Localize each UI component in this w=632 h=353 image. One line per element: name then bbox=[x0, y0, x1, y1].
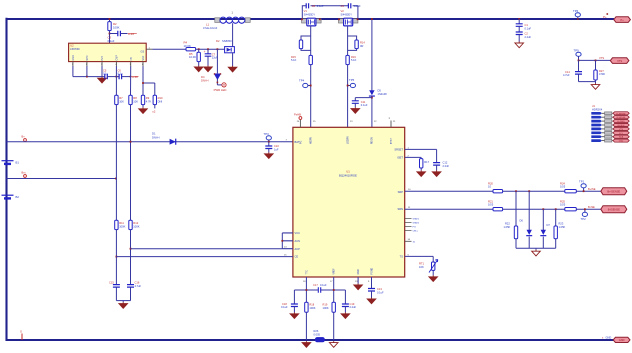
svg-text:VCC: VCC bbox=[295, 231, 301, 235]
capacitor C12 bbox=[433, 163, 440, 166]
wire C3 to net tie bbox=[120, 33, 127, 35]
test point TP9 VTS bbox=[576, 52, 581, 56]
svg-text:P+: P+ bbox=[603, 15, 607, 19]
inductor L1 bbox=[215, 18, 220, 23]
diode D5 to REGN bbox=[369, 90, 374, 95]
resistor R18 bbox=[305, 302, 308, 312]
node junction Q1 right bbox=[319, 18, 321, 20]
node junction input caps bbox=[518, 18, 520, 20]
net label B-I row 4 bbox=[591, 124, 602, 127]
svg-text:C12: C12 bbox=[443, 160, 448, 164]
capacitor C15 bbox=[113, 285, 120, 288]
resistor R20 series bbox=[493, 190, 503, 193]
diode D1 on BAT+ wire bbox=[170, 139, 176, 145]
connector J1 pin 3 bbox=[602, 120, 614, 122]
port B+ISENSE bbox=[601, 188, 627, 195]
ground below R17 bbox=[420, 168, 422, 170]
resistor R15 gate series bbox=[309, 55, 312, 64]
svg-text:10/5: 10/5 bbox=[560, 203, 566, 207]
svg-text:R14: R14 bbox=[360, 41, 365, 45]
U1 pin names right side bbox=[394, 148, 403, 259]
svg-text:R18: R18 bbox=[309, 302, 314, 306]
capacitor C13 bbox=[368, 289, 375, 292]
svg-text:VTS: VTS bbox=[619, 129, 624, 131]
wire GND bus bottom bbox=[7, 339, 614, 341]
wire bottom bracket bbox=[294, 289, 318, 291]
node X2 tie below R10 bbox=[154, 105, 156, 109]
wire R23 to rail bbox=[555, 239, 557, 248]
wire SRP net bbox=[405, 190, 493, 192]
wire Q1 gate chain bbox=[310, 26, 312, 56]
svg-text:C15: C15 bbox=[109, 281, 114, 285]
wire VTS net bbox=[579, 59, 611, 61]
node junction Q2 left bbox=[338, 18, 340, 20]
svg-text:SI4435DY: SI4435DY bbox=[304, 14, 316, 17]
power port GND tick bottom left bbox=[21, 334, 23, 341]
wire GND pin stub bbox=[357, 277, 359, 284]
resistor R27 bbox=[594, 70, 597, 80]
svg-text:47uH-10x10: 47uH-10x10 bbox=[203, 26, 218, 30]
diode D6 clamp bbox=[527, 230, 532, 235]
capacitor C11 bbox=[352, 101, 359, 104]
svg-text:10K: 10K bbox=[419, 265, 424, 269]
svg-text:U2: U2 bbox=[70, 44, 74, 48]
resistor R2 pullup to VIN bbox=[108, 22, 111, 31]
wire C16 to gnd bracket bbox=[130, 287, 132, 301]
svg-text:SI4435DY: SI4435DY bbox=[341, 14, 353, 17]
svg-text:C19: C19 bbox=[350, 302, 355, 306]
capacitor C9 bypass bbox=[348, 3, 350, 8]
svg-text:2.2nF: 2.2nF bbox=[443, 164, 450, 168]
capacitor C7 bbox=[207, 49, 209, 53]
net label GND row 8 bbox=[591, 139, 602, 142]
svg-text:V2: V2 bbox=[341, 9, 345, 13]
svg-text:L5973D: L5973D bbox=[70, 47, 79, 51]
svg-text:C13: C13 bbox=[377, 287, 382, 291]
svg-text:D2: D2 bbox=[216, 39, 220, 43]
svg-text:TP4: TP4 bbox=[299, 79, 305, 83]
node junction R2 bottom bbox=[109, 33, 111, 35]
capacitor C16 bbox=[127, 285, 134, 288]
svg-text:1.05K: 1.05K bbox=[559, 225, 566, 229]
svg-text:0.1uF: 0.1uF bbox=[320, 283, 327, 287]
svg-text:Bm: Bm bbox=[22, 171, 26, 175]
svg-text:B-SENSE: B-SENSE bbox=[617, 117, 626, 119]
resistor R7 bbox=[115, 95, 118, 104]
svg-text:B2: B2 bbox=[16, 195, 20, 199]
svg-text:TP3: TP3 bbox=[264, 132, 270, 136]
node junction REGN bbox=[371, 97, 373, 99]
svg-text:0.1u: 0.1u bbox=[103, 72, 109, 76]
svg-text:TP6: TP6 bbox=[573, 9, 579, 13]
capacitor C1 input bbox=[516, 24, 523, 27]
node junction Q2 right bbox=[357, 18, 359, 20]
svg-text:GND: GND bbox=[619, 338, 625, 342]
node junction TP3 bbox=[268, 141, 270, 143]
ground below C2 bbox=[518, 35, 520, 42]
capacitor C17 series bracket bbox=[318, 287, 320, 292]
ground below C19 bbox=[344, 307, 346, 313]
resistor R17 bbox=[420, 159, 423, 168]
svg-text:R25: R25 bbox=[560, 199, 565, 203]
connector J1 pin 8 bbox=[602, 140, 614, 142]
capacitor C3 bbox=[118, 31, 121, 37]
svg-text:PxHB: PxHB bbox=[294, 113, 301, 117]
wire stubs status pins bbox=[405, 219, 412, 242]
svg-text:GS: GS bbox=[141, 51, 145, 54]
svg-text:100K: 100K bbox=[323, 306, 329, 310]
connector J1 pin 5 bbox=[602, 128, 614, 130]
svg-text:GND: GND bbox=[72, 55, 75, 61]
svg-text:1uF: 1uF bbox=[274, 148, 279, 152]
capacitor C14 bbox=[575, 72, 582, 75]
net label B-S row 2 bbox=[591, 116, 602, 119]
ground below RT1 bbox=[432, 270, 434, 275]
svg-text:FB: FB bbox=[130, 57, 133, 60]
wire Q2 gate branch elbow bbox=[348, 36, 357, 40]
node junction Q1 left bbox=[301, 18, 303, 20]
svg-text:100K: 100K bbox=[119, 224, 125, 228]
svg-text:0.1uF: 0.1uF bbox=[108, 39, 115, 43]
svg-text:BAT: BAT bbox=[295, 140, 300, 144]
ground below C10 bbox=[268, 149, 270, 153]
resistor R22 bbox=[514, 226, 517, 239]
svg-text:INH: INH bbox=[101, 56, 104, 60]
svg-text:2.2uF: 2.2uF bbox=[350, 305, 357, 309]
wire ISET pin to R17 bbox=[405, 156, 422, 158]
node junction BAT+ tap bbox=[130, 141, 132, 143]
svg-text:B-ISEN: B-ISEN bbox=[618, 125, 625, 127]
wire bracket left down bbox=[293, 290, 295, 304]
svg-text:DNI-H: DNI-H bbox=[152, 135, 160, 139]
svg-text:D4: D4 bbox=[201, 75, 205, 79]
transistor Q1 PFET bbox=[302, 19, 307, 23]
svg-text:P+: P+ bbox=[620, 18, 624, 22]
svg-text:TP2: TP2 bbox=[581, 217, 587, 221]
capacitor C8 bypass bbox=[306, 3, 308, 8]
net label SDA row 7 bbox=[591, 135, 602, 138]
svg-text:HDR2X4: HDR2X4 bbox=[592, 107, 603, 111]
svg-text:5.1K: 5.1K bbox=[291, 58, 297, 62]
node junction branch bbox=[142, 82, 144, 84]
port B-SENSE bbox=[613, 116, 629, 119]
svg-text:V1: V1 bbox=[304, 9, 308, 13]
svg-text:R20: R20 bbox=[488, 181, 493, 185]
node red net tie on cap line bbox=[130, 76, 132, 78]
node junction LED branch bbox=[217, 48, 219, 50]
svg-text:DNI-H: DNI-H bbox=[201, 79, 209, 83]
wire branch to x155 bbox=[143, 82, 155, 84]
port VTS bbox=[610, 58, 629, 64]
wire Q1 gate branch elbow bbox=[301, 36, 311, 40]
wire SRN net bbox=[405, 208, 493, 210]
node junction VTS cap bbox=[578, 60, 580, 62]
svg-text:STAT1: STAT1 bbox=[413, 218, 420, 221]
svg-text:BQ24610RGE: BQ24610RGE bbox=[339, 174, 357, 178]
svg-text:PWR LED: PWR LED bbox=[214, 88, 227, 92]
ground below C12 bbox=[436, 165, 438, 170]
wire CE net bbox=[116, 256, 293, 258]
svg-text:CMP: CMP bbox=[116, 55, 119, 61]
svg-text:PGND: PGND bbox=[372, 268, 374, 275]
port B+SENSE bbox=[613, 112, 629, 115]
ground below C7 bbox=[207, 56, 209, 65]
wire U2 pin1 down bbox=[72, 66, 74, 76]
wire R22 branch bbox=[515, 191, 517, 226]
svg-text:4.7uF: 4.7uF bbox=[563, 73, 570, 77]
resistor R19 bbox=[332, 302, 335, 312]
svg-text:C1: C1 bbox=[525, 23, 529, 27]
capacitor C2 input bbox=[516, 32, 523, 35]
svg-text:R27: R27 bbox=[599, 69, 604, 73]
U2 pin numbers bbox=[72, 48, 151, 67]
wire chain x130 lower bbox=[130, 230, 132, 285]
svg-text:10/5: 10/5 bbox=[560, 185, 566, 189]
svg-text:PG: PG bbox=[300, 140, 302, 144]
connector J1 pin 4 bbox=[602, 124, 614, 126]
capacitor C18 bbox=[291, 304, 298, 307]
svg-text:R5: R5 bbox=[189, 52, 193, 56]
svg-text:0.005: 0.005 bbox=[314, 333, 321, 337]
U1 pin names left side bbox=[295, 140, 301, 259]
op-amp U2 regulator L5973D body bbox=[69, 43, 147, 61]
ground below cap bracket bbox=[122, 301, 124, 303]
resistor R24 series bbox=[565, 190, 577, 193]
svg-text:C9: C9 bbox=[341, 4, 345, 8]
wire D7 to rail bbox=[542, 237, 544, 249]
node junction wireA bbox=[130, 248, 132, 250]
ground below bus left of R26 bbox=[302, 341, 311, 347]
connector J1 pin 7 bbox=[602, 136, 614, 138]
resistor R4 series bbox=[186, 48, 196, 51]
svg-text:HIDRV: HIDRV bbox=[311, 136, 313, 144]
port B+ISEN bbox=[613, 120, 629, 123]
ground below VTS divider bbox=[595, 82, 597, 84]
svg-text:CELL: CELL bbox=[413, 231, 419, 233]
svg-text:C8: C8 bbox=[312, 4, 316, 8]
svg-text:C10: C10 bbox=[274, 144, 279, 148]
svg-text:D1: D1 bbox=[152, 132, 156, 136]
svg-text:R16: R16 bbox=[351, 55, 356, 59]
svg-text:C14: C14 bbox=[565, 70, 570, 74]
node junction R25 tap bbox=[555, 208, 557, 210]
svg-text:D6: D6 bbox=[520, 219, 524, 223]
wire LED to TP bbox=[216, 79, 218, 85]
connector J1 pin 6 bbox=[602, 132, 614, 134]
node junction cell-mid at R stack bbox=[115, 178, 117, 180]
battery B2 bbox=[2, 194, 14, 196]
svg-text:C3: C3 bbox=[108, 36, 112, 40]
wire battery negative bus left bbox=[5, 18, 7, 341]
port GND bottom right bbox=[613, 337, 630, 342]
svg-text:2.2uF: 2.2uF bbox=[525, 35, 532, 39]
svg-text:B+ISEN: B+ISEN bbox=[617, 121, 625, 123]
svg-text:VTS: VTS bbox=[617, 59, 622, 63]
wire bracket right down bbox=[344, 290, 346, 304]
wire R27 bottom bbox=[595, 80, 597, 82]
svg-text:RT1: RT1 bbox=[419, 262, 425, 266]
wire SRN to port bbox=[576, 208, 601, 210]
svg-text:GND: GND bbox=[358, 269, 360, 274]
thermistor RT1 bbox=[432, 262, 435, 270]
resistor R26 shunt on gnd bus bbox=[315, 337, 324, 342]
svg-text:x2: x2 bbox=[152, 110, 156, 114]
svg-text:R23: R23 bbox=[559, 222, 564, 226]
svg-text:10.0K: 10.0K bbox=[189, 55, 196, 59]
ground below diode box bbox=[228, 66, 237, 72]
svg-text:ACP: ACP bbox=[295, 247, 301, 251]
svg-text:TP5: TP5 bbox=[349, 78, 355, 82]
wire TS pin to RT1 bbox=[405, 255, 434, 257]
svg-text:0.1uF: 0.1uF bbox=[281, 305, 288, 309]
wire R16 to IC pin bbox=[347, 65, 349, 128]
wire SRN mid bbox=[503, 208, 565, 210]
svg-text:SYN: SYN bbox=[86, 55, 89, 60]
svg-text:R11: R11 bbox=[119, 221, 124, 225]
wire VREF pin down bbox=[333, 277, 335, 302]
port B-ISEN bbox=[613, 123, 629, 126]
wire U2 OUT pin bbox=[146, 48, 152, 50]
svg-text:B1: B1 bbox=[16, 161, 20, 165]
wire TTC pin down bbox=[305, 277, 307, 302]
svg-text:SRP: SRP bbox=[398, 190, 404, 194]
wire input caps stem bbox=[518, 19, 520, 24]
wire R2 to U2 VIN pin bbox=[109, 19, 111, 22]
wire VTS cap branch bbox=[578, 60, 580, 71]
wire Q2 gate chain bbox=[347, 26, 349, 56]
node junction R5 bbox=[198, 48, 200, 50]
wire C14 bottom bbox=[578, 74, 580, 82]
node junction mid caps bbox=[116, 76, 118, 78]
wire TP9 down bbox=[578, 56, 580, 60]
test point TP8 on cell mid wire bbox=[24, 175, 27, 178]
svg-text:B+: B+ bbox=[22, 135, 26, 139]
node junction C7 bbox=[207, 48, 209, 50]
net label B+S row 1 bbox=[591, 112, 602, 115]
wire D6 branch bbox=[528, 191, 530, 230]
diode D2 catch in box bbox=[225, 47, 235, 53]
svg-text:DNI: DNI bbox=[158, 99, 163, 103]
svg-text:B+SENSE: B+SENSE bbox=[616, 113, 626, 115]
connector J1 pin 2 bbox=[602, 116, 614, 118]
wire chain x143 bbox=[142, 66, 144, 95]
svg-text:0.1uF: 0.1uF bbox=[525, 26, 532, 30]
svg-text:R24: R24 bbox=[560, 181, 565, 185]
svg-text:VTS: VTS bbox=[599, 56, 604, 60]
test point TP3 BAT bbox=[266, 136, 271, 140]
svg-text:10K: 10K bbox=[133, 99, 138, 103]
U2 pin stubs bottom bbox=[73, 62, 143, 67]
svg-text:100K: 100K bbox=[133, 224, 139, 228]
wire R22 to rail bbox=[515, 239, 517, 248]
svg-text:SS8050: SS8050 bbox=[222, 39, 232, 43]
svg-text:B-ISENSE: B-ISENSE bbox=[608, 207, 620, 211]
wire D5 to pin bbox=[371, 96, 373, 127]
svg-text:TS: TS bbox=[400, 254, 404, 258]
svg-text:SDA: SDA bbox=[619, 136, 624, 139]
U1 pin numbers bbox=[284, 121, 411, 283]
ground below C11 bbox=[354, 103, 356, 107]
wire VIN bus top bbox=[7, 18, 615, 20]
node PG red label above pin bbox=[299, 120, 301, 128]
svg-text:VREF: VREF bbox=[334, 268, 336, 275]
node junction R22 tap bbox=[515, 190, 517, 192]
node junction wireB bbox=[116, 256, 118, 258]
wire chain x116 mid bbox=[115, 105, 117, 221]
diode D7 clamp bbox=[541, 230, 546, 235]
node junction VTS res bbox=[595, 60, 597, 62]
svg-text:10.0K: 10.0K bbox=[184, 44, 191, 48]
wire R14 bottom elbow bbox=[348, 49, 357, 51]
wire chain x130 mid bbox=[130, 105, 132, 221]
wire REGN to C11 bbox=[355, 97, 372, 99]
ground clamp rail bbox=[535, 248, 537, 250]
resistor R12 bbox=[129, 220, 132, 229]
svg-text:0.1uF: 0.1uF bbox=[361, 103, 368, 107]
svg-text:R19: R19 bbox=[323, 302, 328, 306]
svg-text:0.1u: 0.1u bbox=[118, 72, 124, 76]
node junction D7 tap bbox=[542, 208, 544, 210]
resistor R23 bbox=[554, 226, 557, 239]
wire diode box up to L1 bbox=[232, 23, 234, 46]
resistor R10 bbox=[153, 95, 156, 104]
capacitor C10 on BAT sense bbox=[268, 142, 270, 146]
wire R23 branch bbox=[555, 209, 557, 226]
svg-text:GND: GND bbox=[606, 335, 612, 339]
wire SRSET pin to C12 bbox=[405, 148, 437, 150]
svg-text:10/5: 10/5 bbox=[488, 203, 494, 207]
resistor R25 series bbox=[565, 208, 577, 211]
svg-text:o-10: o-10 bbox=[132, 75, 138, 79]
wire R15 to IC HIDRV pin bbox=[310, 65, 312, 128]
port SDA bbox=[613, 135, 629, 138]
wire R27 branch bbox=[595, 60, 597, 70]
port P+ VIN bbox=[614, 17, 631, 23]
ground below bus right of R26 bbox=[329, 341, 338, 347]
U1 pin names top bbox=[300, 136, 393, 144]
svg-text:0R: 0R bbox=[360, 44, 363, 48]
wire FET bypass bracket bbox=[302, 6, 306, 19]
capacitor C6 series bbox=[119, 74, 122, 79]
svg-text:+: + bbox=[204, 50, 206, 54]
svg-text:VRF: VRF bbox=[142, 55, 145, 60]
wire chain x130 upper bbox=[130, 66, 132, 95]
wire between C5 C6 bbox=[107, 76, 119, 78]
resistor R9 bbox=[141, 95, 144, 104]
svg-text:R9: R9 bbox=[146, 96, 150, 100]
node junction R2 top on VIN bus bbox=[109, 18, 111, 20]
svg-text:LODRV: LODRV bbox=[348, 136, 350, 144]
wire ACP-ACN cluster bbox=[131, 248, 283, 250]
svg-text:10K: 10K bbox=[119, 99, 124, 103]
connector J1 pin 1 bbox=[602, 112, 614, 114]
svg-text:C11: C11 bbox=[361, 100, 366, 104]
svg-text:4.7uF: 4.7uF bbox=[135, 284, 142, 288]
test point TP1 SRP bbox=[581, 184, 586, 188]
ground below GND pin bbox=[354, 284, 363, 290]
svg-text:REGN: REGN bbox=[372, 137, 374, 144]
resistor R8 bbox=[129, 95, 132, 104]
U1 pin names bottom bbox=[306, 268, 373, 275]
wire C1 to C2 bbox=[518, 26, 520, 32]
wire cell-mid net bbox=[7, 178, 116, 180]
port B-ISENSE bbox=[601, 206, 627, 213]
port SCL bbox=[613, 131, 629, 134]
svg-text:ACN: ACN bbox=[295, 239, 301, 243]
svg-text:L1: L1 bbox=[206, 22, 210, 26]
svg-text:470K: 470K bbox=[599, 72, 605, 76]
test point TP-ACDRV2 bbox=[350, 83, 355, 87]
